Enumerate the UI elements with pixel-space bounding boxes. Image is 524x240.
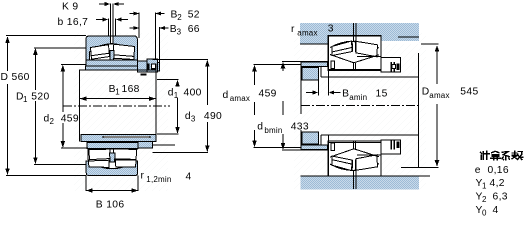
- dbmin dimension line: [282, 63, 284, 72]
- raceway cavity bottom (white): [88, 149, 136, 169]
- bottom sleeve/washer band: [81, 134, 156, 141]
- B2 arrow stems: [130, 13, 136, 15]
- shaft shoulder block (bottom): [302, 132, 319, 144]
- D1 extension top: [34, 47, 86, 49]
- svg-text:b 16,7: b 16,7: [58, 17, 89, 28]
- nut top (right view): [381, 58, 401, 72]
- shaft bottom line: [321, 134, 419, 136]
- B1 dimension line: [80, 98, 155, 100]
- centre wedge (bottom): [110, 153, 115, 162]
- roller right bottom (right view): [355, 155, 377, 171]
- nut lower ext line: [153, 144, 176, 146]
- d2 extension bottom: [61, 147, 88, 149]
- d1 extension bottom: [157, 133, 179, 135]
- svg-text:r: r: [141, 171, 145, 182]
- D dimension line: [7, 37, 9, 71]
- d3 arrows: [205, 60, 210, 67]
- hatch region right figure: [294, 33, 426, 190]
- centre flange lines bottom (right view): [352, 159, 356, 170]
- svg-text:d: d: [223, 90, 229, 101]
- B extension left: [85, 176, 87, 191]
- inner ring top edge right part (right view): [357, 56, 381, 58]
- outer ring top half (left view): [86, 36, 137, 62]
- svg-text:1: 1: [23, 95, 28, 104]
- nut thread detail bar: [148, 64, 150, 71]
- svg-text:66: 66: [188, 24, 200, 35]
- CJK heading (drawn glyphs): [480, 151, 523, 160]
- nut bottom (right view): [381, 140, 401, 154]
- dbmin extension top: [282, 60, 328, 62]
- B extension right: [137, 176, 139, 191]
- bearing outline bottom (right view): [328, 141, 381, 176]
- svg-text:2: 2: [50, 117, 55, 126]
- nut (bottom): [138, 141, 153, 147]
- sleeve slit top (right view): [353, 63, 355, 71]
- cage V bottom (right view): [330, 149, 379, 157]
- B arrows: [86, 188, 93, 193]
- svg-text:3: 3: [328, 24, 334, 35]
- svg-text:e: e: [475, 165, 481, 176]
- svg-text:3: 3: [177, 27, 182, 36]
- Damax extension top: [421, 43, 439, 45]
- centre flange lines top (right view): [352, 42, 356, 53]
- sleeve slit bottom (right view): [353, 141, 355, 149]
- B3 arrow stems: [130, 27, 136, 29]
- K arrows: [99, 3, 107, 5]
- dbmin extension bottom: [282, 149, 328, 151]
- washer slot line (bottom band): [103, 136, 150, 138]
- svg-text:2: 2: [177, 13, 182, 22]
- svg-text:D 560: D 560: [1, 72, 30, 83]
- svg-text:4: 4: [493, 205, 499, 216]
- Bamin reference lines: [317, 80, 319, 96]
- housing band right edge line down: [418, 53, 420, 168]
- roller left inner line bottom (right view): [332, 160, 352, 165]
- b arrows stems: [96, 19, 105, 21]
- K reference lines: [109, 4, 111, 37]
- shaft shoulder strip (top): [301, 62, 327, 67]
- svg-text:amin: amin: [349, 93, 367, 102]
- svg-text:52: 52: [188, 10, 200, 21]
- d2 arrows: [61, 65, 66, 72]
- outer ring bottom half: [86, 161, 137, 176]
- Damax dimension line: [436, 46, 438, 84]
- roller left (bottom upper row): [89, 149, 110, 159]
- svg-text:K 9: K 9: [62, 1, 79, 12]
- roller left top (right view): [332, 41, 352, 56]
- svg-text:459: 459: [259, 89, 277, 100]
- svg-text:1: 1: [174, 91, 179, 100]
- svg-text:r: r: [291, 24, 295, 35]
- svg-text:1: 1: [115, 87, 120, 96]
- B dimension line: [86, 190, 138, 192]
- B3 arrowheads: [134, 26, 140, 30]
- roller left bottom (right view): [332, 156, 352, 171]
- spherical raceway cavity (white) top: [90, 44, 135, 62]
- svg-text:1: 1: [482, 182, 487, 191]
- sleeve band under inner ring (top): [86, 66, 138, 70]
- housing band top: [300, 23, 419, 44]
- d1 dimension line: [177, 81, 179, 85]
- inner ring bottom edge right part (right view): [357, 154, 381, 156]
- axis centreline (left view): [63, 105, 170, 107]
- shaft shoulder strip (bottom): [301, 145, 327, 150]
- groove lines through band (right view): [353, 23, 355, 41]
- damax arrows: [252, 65, 257, 72]
- washer box left bottom (right view): [331, 143, 334, 150]
- adapter sleeve right portion (top): [137, 61, 150, 72]
- Bamin arrow stems: [306, 92, 313, 94]
- svg-text:0,16: 0,16: [488, 165, 509, 176]
- lubrication groove in outer ring: [110, 36, 113, 44]
- roller left (bottom lower row): [88, 160, 109, 167]
- shaft step face vertical line: [300, 62, 302, 115]
- damax dimension line: [254, 66, 256, 86]
- K arrowheads: [105, 2, 111, 6]
- B2 arrowheads: [134, 12, 140, 16]
- roller left inner line top (right view): [332, 48, 352, 53]
- d3 dimension line: [206, 61, 208, 105]
- inner ring band (bottom): [87, 143, 138, 149]
- roller right (top row): [113, 44, 134, 59]
- Bamin arrowheads: [313, 91, 319, 95]
- svg-text:0: 0: [482, 209, 487, 218]
- B2 reference line right: [155, 13, 157, 59]
- D1 extension bottom: [34, 163, 86, 165]
- sleeve thread stub under nut: [141, 74, 147, 76]
- damax extension bottom: [254, 147, 302, 149]
- cage line right roller: [113, 55, 134, 57]
- roller left (top row): [91, 45, 110, 60]
- roller right (bottom upper row): [113, 149, 137, 160]
- lock washer tab (white box in nut): [152, 64, 156, 69]
- svg-text:amax: amax: [297, 29, 317, 38]
- nut detail ticks top (right view): [391, 62, 393, 72]
- svg-text:490: 490: [204, 111, 222, 122]
- D extension line top: [6, 35, 86, 37]
- b reference lines: [107, 19, 109, 37]
- D arrows: [5, 37, 10, 44]
- shaft top line: [321, 76, 419, 78]
- bottom housing band top edge: [301, 175, 431, 177]
- bottom housing band: [301, 176, 420, 190]
- dbmin arrows: [281, 62, 286, 69]
- svg-text:4: 4: [186, 172, 192, 183]
- svg-text:3: 3: [191, 114, 196, 123]
- shaft shoulder block (top): [302, 68, 319, 80]
- damax extension top: [254, 63, 302, 65]
- svg-text:433: 433: [291, 122, 309, 133]
- roller right top (right view): [355, 41, 377, 57]
- cage line left roller: [91, 53, 109, 56]
- nut detail ticks bottom (right view): [391, 140, 393, 150]
- Damax extension bottom: [401, 167, 439, 169]
- sleeve cylinder outline: [80, 70, 156, 141]
- bearing outline top (right view): [328, 36, 381, 71]
- D extension line bottom: [6, 174, 86, 176]
- roller right (bottom lower row): [116, 160, 137, 167]
- washer tab white top (right view): [392, 65, 396, 69]
- d2 extension top: [61, 64, 86, 66]
- raceway arc top: [330, 41, 379, 48]
- d2 dimension line: [62, 66, 64, 112]
- d3 extension bottom: [153, 151, 209, 153]
- svg-text:400: 400: [184, 88, 202, 99]
- b arrowheads: [103, 18, 109, 22]
- washer box left top (right view): [331, 61, 334, 68]
- lock nut body (top): [147, 59, 158, 72]
- groove lines through bottom band (right view): [353, 171, 355, 189]
- d3 extension top: [153, 59, 209, 61]
- B3 reference line right: [159, 27, 161, 62]
- D1 arrows: [33, 48, 38, 55]
- Damax arrows: [435, 45, 440, 52]
- B1 arrows: [80, 96, 87, 101]
- shaft step edge verticals top: [320, 67, 322, 77]
- svg-text:520: 520: [31, 92, 49, 103]
- cage V top (right view): [330, 55, 379, 63]
- inner ring bore line top (right view): [328, 68, 381, 70]
- svg-text:bmin: bmin: [264, 126, 282, 135]
- inner ring band (top): [86, 60, 137, 66]
- D1 dimension line: [34, 49, 36, 90]
- axis centreline (right view): [301, 104, 419, 106]
- svg-text:2: 2: [482, 195, 487, 204]
- B2 reference line left: [138, 13, 140, 39]
- hatch region left figure: [74, 33, 168, 191]
- d1 extension top: [157, 79, 179, 81]
- svg-text:amax: amax: [230, 94, 250, 103]
- shaft step edge verticals bottom: [320, 135, 322, 145]
- svg-text:545: 545: [460, 87, 478, 98]
- svg-text:amax: amax: [429, 91, 449, 100]
- inner ring bore line bottom (right view): [328, 141, 381, 143]
- svg-text:459: 459: [61, 114, 79, 125]
- housing band bottom edge (left of bearing): [300, 43, 328, 45]
- svg-text:15: 15: [376, 89, 388, 100]
- svg-text:4,2: 4,2: [490, 178, 505, 189]
- d1 arrows: [175, 80, 180, 87]
- svg-text:d: d: [257, 122, 263, 133]
- nut right small step: [158, 62, 160, 71]
- centre guide ring wedge: [110, 51, 114, 62]
- svg-text:6,3: 6,3: [493, 192, 508, 203]
- svg-text:B 106: B 106: [96, 200, 125, 211]
- housing band top right lower edge cut: [382, 41, 420, 44]
- raceway arc bottom: [330, 164, 379, 171]
- svg-text:1,2min: 1,2min: [146, 175, 171, 184]
- housing bore step line right: [398, 36, 419, 38]
- svg-text:168: 168: [122, 84, 140, 95]
